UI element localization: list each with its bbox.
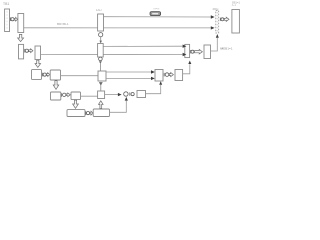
link tick 1	[9, 17, 11, 21]
link tick 8	[190, 50, 192, 53]
block arrow right 2	[29, 49, 33, 53]
svg-text:MEB1=1: MEB1=1	[221, 47, 233, 51]
wire E to H	[81, 95, 98, 97]
block box H	[98, 91, 105, 99]
block box J	[155, 70, 163, 82]
mid bus rect 1	[98, 14, 104, 31]
link tick 7	[163, 73, 165, 77]
block box D	[51, 92, 61, 100]
node circle 8	[191, 50, 194, 53]
terminal block left	[5, 9, 10, 32]
collector box A	[185, 44, 190, 57]
link down to HH	[99, 61, 102, 64]
arrowhead line A into right bus	[211, 15, 215, 18]
block arrow right 8	[195, 49, 203, 54]
node circle 3	[43, 73, 46, 76]
arrowhead up into J	[159, 81, 162, 85]
right block box M	[232, 10, 240, 34]
block arrow right 1	[14, 17, 17, 21]
hollow up arrow G to H	[99, 101, 104, 109]
arrowhead up into or-node	[125, 97, 128, 101]
block box G	[93, 109, 109, 117]
block arrow right 3	[47, 73, 50, 77]
link down mid column	[100, 37, 102, 43]
link tick 6	[129, 92, 131, 95]
block box L	[204, 45, 211, 59]
block arrow right 9	[224, 17, 229, 21]
svg-text:TB1: TB1	[3, 2, 9, 6]
node circle below mid bus2	[99, 57, 103, 61]
block box HH	[98, 71, 106, 81]
hollow down arrow under E	[73, 100, 79, 108]
wire H to or-node with arrow	[105, 94, 119, 96]
block box left upper	[18, 14, 24, 33]
node circle 7	[165, 73, 169, 77]
block box B	[32, 70, 42, 80]
link tick 9	[219, 18, 221, 21]
node circle 1	[11, 18, 14, 21]
wire L right then up into right bus	[211, 38, 218, 51]
hollow down arrow under left box	[18, 34, 24, 41]
link tick 3	[41, 73, 43, 77]
node circle 2	[25, 49, 28, 52]
svg-text:A-1: A-1	[232, 3, 237, 7]
svg-text:m=m: m=m	[154, 8, 160, 11]
node circle 6	[131, 93, 134, 96]
node circle 9	[221, 18, 224, 21]
node circle 5	[86, 112, 89, 115]
block box K	[175, 70, 183, 81]
node circle below mid bus1	[99, 33, 103, 37]
wire L1 from mid bus2	[103, 45, 182, 47]
wire K right then up into boxA	[183, 64, 190, 74]
node circle 4	[62, 93, 65, 96]
wire HH out1	[106, 71, 151, 73]
link tick 2	[24, 49, 26, 53]
block box I	[137, 91, 146, 98]
arrowhead up into boxA	[188, 61, 191, 65]
wire bus line B y28	[24, 27, 211, 29]
block box C	[50, 70, 60, 80]
block arrow right 5	[90, 111, 93, 115]
link tick 5	[85, 111, 87, 115]
wire C to HH	[61, 75, 99, 77]
block box F	[67, 110, 85, 117]
right bus terminal	[216, 11, 219, 34]
svg-text:BR=BL1: BR=BL1	[57, 22, 69, 26]
hollow down arrow under mid2	[35, 60, 41, 67]
block box left mid	[19, 44, 24, 59]
link tick 4	[61, 93, 63, 97]
block box E	[71, 92, 81, 100]
block arrow right 7	[169, 73, 173, 77]
wire A from mid bus1 top	[104, 16, 212, 18]
arrowhead up into right bus	[216, 34, 219, 38]
wire HH out2	[106, 77, 151, 79]
svg-text:1AH: 1AH	[96, 8, 102, 12]
mid bus rect 2	[98, 44, 104, 58]
wire I right then up into J	[146, 85, 161, 94]
hollow down arrow under C	[53, 81, 59, 90]
wire L2 from mid2 box through bus2	[41, 54, 183, 56]
or-node circle	[124, 92, 128, 96]
block arrow right 4	[66, 93, 70, 97]
arrowhead line B into right bus	[211, 26, 215, 29]
down link arrow HH to H	[99, 82, 103, 86]
wire G right then up to or-node	[110, 101, 127, 113]
block box left mid2	[35, 46, 41, 60]
